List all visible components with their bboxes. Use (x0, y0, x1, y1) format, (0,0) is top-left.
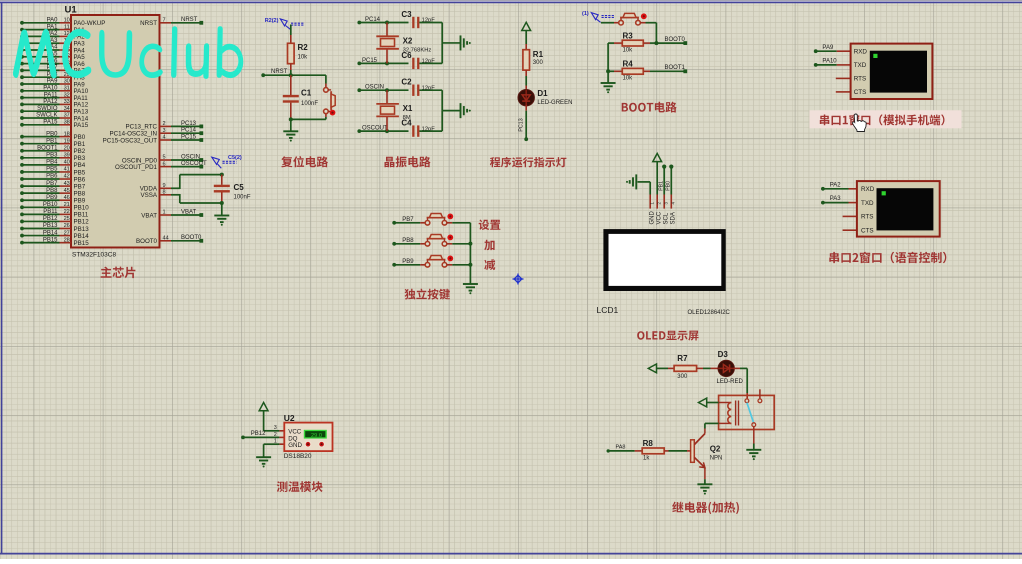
svg-text:10: 10 (64, 18, 70, 24)
OLED pin labels (649, 211, 676, 225)
svg-text:OSCIN: OSCIN (181, 154, 200, 160)
label 串口1窗口 highlight (810, 110, 962, 128)
svg-text:PB1: PB1 (659, 181, 665, 191)
svg-text:TXD: TXD (861, 200, 874, 207)
power arrow relay coil (699, 398, 707, 407)
resistor R8 (642, 439, 664, 462)
svg-text:PB10: PB10 (74, 205, 90, 212)
svg-text:27: 27 (64, 230, 70, 236)
svg-text:28: 28 (64, 237, 70, 243)
capacitor C5 (214, 175, 251, 203)
svg-text:RTS: RTS (861, 214, 873, 221)
wire arrow to R7 (657, 367, 674, 369)
button PB8 (425, 235, 453, 247)
node NRST junction (264, 73, 326, 77)
svg-text:PB11: PB11 (43, 209, 58, 215)
svg-text:PB15: PB15 (74, 240, 90, 247)
U1 left pin 17 PA7 (20, 65, 85, 75)
svg-text:45: 45 (64, 188, 70, 194)
svg-text:PB9: PB9 (74, 198, 86, 205)
U1 left pin 46 PB9 (20, 195, 86, 205)
U1 right pin 5 OSCIN_PD0 (122, 154, 203, 164)
svg-text:RXD: RXD (854, 49, 868, 56)
label 加 (484, 240, 494, 251)
resistor R4 (608, 60, 683, 82)
terminal PA10 (814, 59, 837, 67)
wire PB7 to button (396, 222, 426, 224)
U1 left pin 16 PA6 (20, 58, 85, 68)
wire C5 to ground (221, 203, 223, 216)
svg-text:Q2: Q2 (710, 444, 721, 453)
U1 right pin 8 VSSA (140, 190, 171, 200)
svg-text:37: 37 (64, 113, 70, 119)
terminal NRST (261, 69, 287, 77)
ground BOOT (601, 82, 616, 84)
svg-text:1k: 1k (643, 456, 650, 462)
svg-text:PA12: PA12 (43, 99, 58, 105)
capacitor C4 (401, 119, 435, 137)
label OLED显示屏 (637, 331, 698, 341)
diode D1 LED-GREEN (518, 89, 572, 106)
terminal PB9 (392, 259, 414, 267)
label 串口1窗口（模拟手机端） (820, 114, 945, 125)
U1 left pin 40 PB4 (20, 160, 86, 170)
U1 right pin 6 OSCOUT_PD1 (115, 161, 207, 171)
svg-text:7: 7 (163, 18, 166, 24)
node C5 bottom (220, 201, 224, 205)
svg-text:DS18B20: DS18B20 (284, 453, 312, 460)
relay pole contact (745, 399, 749, 403)
node X junction top (385, 88, 389, 92)
svg-text:X2: X2 (403, 37, 413, 46)
svg-text:3: 3 (274, 425, 277, 431)
U1 left pin 42 PB6 (20, 174, 86, 184)
svg-text:26: 26 (64, 223, 70, 229)
svg-text:SWDIO: SWDIO (37, 106, 58, 112)
terminal PC15 (357, 58, 377, 66)
U1 left pin 21 PB10 (20, 202, 89, 212)
svg-text:BOOT1: BOOT1 (665, 65, 686, 71)
svg-text:300: 300 (677, 374, 688, 380)
wire PA3 to TXD2 (824, 202, 857, 204)
label 串口2窗口（语音控制） (829, 252, 946, 263)
svg-text:C3: C3 (401, 10, 412, 19)
wire D1 down PC13 (518, 105, 526, 138)
svg-text:PB14: PB14 (43, 230, 58, 236)
svg-text:U2: U2 (284, 413, 295, 423)
svg-text:STM32F103C8: STM32F103C8 (72, 252, 116, 259)
node C1 bottom junction (289, 117, 293, 121)
capacitor C6 (401, 51, 435, 69)
U1 right pin 3 PC14-OSC32_IN (110, 128, 204, 138)
svg-text:R1: R1 (533, 50, 544, 59)
terminal PA8 (607, 445, 626, 453)
relay NO contact (758, 389, 762, 402)
wire R7 to D3 (697, 367, 719, 369)
svg-text:PB9: PB9 (46, 195, 58, 201)
U1 left pin 41 PB5 (20, 167, 86, 177)
wire PA8 to R8 (610, 450, 643, 452)
svg-text:5: 5 (163, 155, 166, 161)
svg-text:R2(2): R2(2) (265, 18, 279, 24)
origin marker R2(2) (265, 18, 305, 29)
wire button to node (640, 23, 656, 43)
svg-text:NRST: NRST (181, 17, 198, 23)
svg-text:PB6: PB6 (46, 174, 58, 180)
wire to ground X1 (442, 110, 460, 112)
svg-text:8: 8 (163, 190, 166, 196)
svg-text:39: 39 (64, 153, 70, 159)
svg-text:PC14: PC14 (181, 128, 197, 134)
svg-text:PB10: PB10 (43, 202, 58, 208)
wire PA9 to RXD (817, 50, 851, 52)
svg-text:11: 11 (64, 24, 70, 30)
svg-text:BOOT0: BOOT0 (181, 235, 202, 241)
wire coil to Q2 collector (705, 423, 719, 433)
U1 right pin 4 PC15-OSC32_OUT (103, 134, 204, 144)
U1 left pin 33 PA12 (20, 99, 89, 109)
svg-text:PA2: PA2 (830, 182, 842, 188)
svg-text:PB12: PB12 (43, 216, 58, 222)
svg-text:D3: D3 (718, 350, 729, 359)
svg-text:NPN: NPN (710, 456, 723, 462)
svg-text:PB4: PB4 (46, 160, 58, 166)
U1 right pin 1 VBAT (141, 209, 203, 219)
ground U2 (256, 456, 271, 458)
U1 left pin 25 PB12 (20, 216, 89, 226)
svg-text:22: 22 (64, 209, 70, 215)
transistor Q2 (691, 434, 723, 468)
power arrow U2 (259, 403, 268, 411)
wire C6 right (419, 43, 442, 63)
svg-text:CTS: CTS (854, 89, 867, 96)
resistor R7 (674, 354, 697, 380)
wire R8 to Q2 base (664, 450, 690, 452)
svg-text:GND: GND (288, 442, 302, 449)
svg-text:PB13: PB13 (43, 223, 58, 229)
svg-text:PB3: PB3 (46, 153, 58, 159)
svg-text:PB0: PB0 (46, 131, 58, 137)
power arrow D1 (522, 22, 531, 30)
svg-text:44: 44 (163, 236, 169, 242)
svg-text:NRST: NRST (140, 20, 157, 27)
svg-text:38: 38 (64, 120, 70, 126)
power arrow OLED VCC (653, 153, 662, 161)
wire PA10 to TXD (817, 64, 851, 66)
svg-text:21: 21 (64, 202, 70, 208)
ground X1 (460, 103, 462, 118)
U1 left pin 19 PB1 (20, 138, 86, 148)
svg-text:PA0: PA0 (47, 18, 59, 24)
node key bus 2 (468, 263, 472, 267)
svg-text:PC13: PC13 (181, 121, 197, 127)
label 设置 (479, 220, 501, 231)
ground keys (463, 283, 478, 285)
U1 left pin 29 PA8 (20, 72, 85, 82)
svg-text:PB15: PB15 (43, 237, 58, 243)
svg-text:2: 2 (163, 121, 166, 127)
svg-text:VSSA: VSSA (140, 192, 157, 199)
ground X2 (460, 35, 462, 50)
ground C5 (214, 215, 229, 217)
terminal BOOT0 square (683, 41, 687, 45)
wire bottom to button (291, 118, 326, 120)
resistor R1 (523, 50, 544, 70)
wire GND U2 (264, 444, 285, 457)
terminal PA2 (821, 182, 841, 190)
U1 left pin 18 PB0 (20, 131, 86, 141)
svg-text:C2: C2 (401, 78, 412, 87)
terminal PB7 (392, 217, 414, 225)
label 继电器(加热) (672, 502, 739, 515)
svg-text:BOOT0: BOOT0 (136, 238, 158, 245)
wire power to R1 (525, 31, 527, 50)
svg-text:PC13: PC13 (518, 118, 524, 131)
U1 left pin 14 PA4 (20, 45, 85, 55)
ground relay (746, 449, 761, 451)
wire OSCOUT row (360, 130, 409, 132)
wire R2 top (290, 25, 292, 44)
terminal PA9 (814, 45, 834, 53)
button PB9 (425, 256, 453, 268)
U1 left pin 31 PA10 (20, 86, 89, 96)
wire arrow to coil (707, 402, 719, 404)
label 主芯片 (101, 267, 136, 279)
svg-text:OSCOUT_PD1: OSCOUT_PD1 (115, 164, 158, 171)
wire VCC OLED (656, 162, 658, 195)
wire SDA (666, 168, 672, 195)
U1 left pin 10 PA0 (20, 18, 105, 28)
svg-text:C5: C5 (234, 183, 245, 192)
wire BOOT0 net (656, 37, 685, 43)
wire C2 right (419, 90, 442, 110)
svg-text:6: 6 (163, 161, 166, 167)
U1 right pin 7 NRST (140, 17, 203, 27)
svg-text:PC15-OSC32_OUT: PC15-OSC32_OUT (103, 137, 158, 144)
svg-text:BOOT0: BOOT0 (665, 37, 686, 43)
serial terminal 1 RTS stub (836, 77, 851, 79)
U1 left pin 30 PA9 (20, 79, 85, 89)
label 减 (484, 259, 495, 270)
origin marker (1) (582, 11, 615, 22)
origin marker C5(2) (212, 155, 242, 168)
resistor R3 (608, 32, 656, 54)
svg-text:32: 32 (64, 92, 70, 98)
svg-text:SDA: SDA (671, 212, 677, 224)
svg-text:R3: R3 (623, 32, 634, 41)
relay switch blade (747, 403, 754, 423)
label 程序运行指示灯 (490, 157, 567, 168)
wire PC14 row (360, 22, 409, 24)
boot button (619, 13, 647, 25)
U1 right pin 9 VDDA (140, 183, 171, 193)
wire PB9 to button (396, 264, 426, 266)
svg-text:R4: R4 (623, 60, 634, 69)
svg-text:TXD: TXD (854, 62, 867, 69)
wire C4 right (419, 111, 442, 131)
svg-text:1: 1 (163, 210, 166, 216)
serial terminal 2 CTS stub (843, 229, 857, 231)
svg-text:PA10: PA10 (822, 59, 837, 65)
wire PC15 row (360, 62, 409, 64)
label 测温模块 (277, 481, 323, 492)
terminal OSCOUT (357, 126, 388, 134)
U2 DS18B20 body (284, 413, 333, 451)
terminal PA3 (821, 196, 841, 204)
svg-text:PA9: PA9 (47, 79, 59, 85)
svg-text:PA10: PA10 (43, 86, 58, 92)
svg-text:32.768KHz: 32.768KHz (403, 47, 432, 53)
svg-text:PA11: PA11 (44, 92, 58, 98)
svg-text:VCC: VCC (656, 211, 662, 224)
watermark MCUclub (13, 14, 243, 79)
virtual terminal 2 (857, 181, 940, 237)
node X junction top (385, 21, 389, 25)
svg-text:PB1: PB1 (74, 141, 86, 148)
ground Q2 (697, 483, 712, 485)
svg-text:4: 4 (163, 135, 166, 141)
U1 left pin 45 PB8 (20, 188, 86, 198)
wire power to VCC U2 (264, 411, 285, 431)
svg-text:PA3: PA3 (830, 196, 842, 202)
U1 left pin 34 SWDIO (20, 106, 89, 116)
wire button PB8 to bus (447, 243, 471, 245)
U2 temperature display (304, 430, 327, 439)
label BOOT电路 (622, 102, 677, 113)
U1 STM32F103C8 chip body (71, 15, 160, 248)
OLED pin stubs (650, 195, 676, 209)
ground OLED sideways (635, 174, 637, 189)
capacitor C1 (283, 75, 319, 119)
svg-text:40: 40 (64, 160, 70, 166)
svg-text:100nF: 100nF (301, 101, 318, 107)
ground reset (283, 130, 298, 132)
terminal BOOT1 square (683, 69, 687, 73)
svg-text:1: 1 (274, 439, 277, 445)
svg-text:43: 43 (64, 181, 70, 187)
node X junction bottom (385, 61, 389, 65)
svg-text:SCL: SCL (663, 212, 669, 224)
wire PB8 to button (396, 243, 426, 245)
svg-text:25: 25 (64, 216, 70, 222)
svg-text:10k: 10k (623, 76, 634, 82)
svg-text:PA15: PA15 (43, 120, 58, 126)
svg-text:RTS: RTS (854, 76, 866, 83)
U1 left pin 15 PA5 (20, 52, 85, 62)
svg-text:PB14: PB14 (74, 233, 90, 240)
terminal OSCIN (357, 85, 384, 93)
U1 left pin 38 PA15 (20, 120, 89, 130)
wire D3 to relay (734, 368, 748, 398)
svg-text:PC15: PC15 (181, 134, 197, 140)
svg-text:C1: C1 (301, 89, 312, 98)
svg-text:100nF: 100nF (234, 195, 251, 201)
terminal PB1 dot (662, 165, 666, 169)
svg-text:R7: R7 (677, 354, 688, 363)
serial terminal 2 RTS stub (843, 215, 857, 217)
wire R3 left vertical (607, 43, 609, 83)
svg-text:20: 20 (64, 145, 70, 151)
wire VDDA to C5 (171, 175, 222, 189)
svg-text:PB12: PB12 (251, 431, 266, 437)
svg-text:CTS: CTS (861, 228, 874, 235)
svg-text:(1): (1) (582, 11, 589, 17)
U1 left pin 11 PA1 (20, 24, 85, 34)
svg-text:29.0: 29.0 (311, 433, 322, 439)
node X junction bottom (385, 129, 389, 133)
svg-text:PA1: PA1 (47, 24, 59, 30)
crystal X2 (376, 23, 431, 64)
U1 left pin 27 PB14 (20, 230, 89, 240)
label 复位电路 (281, 156, 328, 167)
svg-text:2: 2 (274, 432, 277, 438)
node R4 left junction (606, 69, 610, 73)
crystal X1 (376, 90, 413, 131)
U2 adjust buttons (305, 441, 325, 448)
terminal PB0 dot (669, 165, 673, 169)
terminal PB12 (241, 431, 266, 439)
U1 left pin 13 PA3 (20, 38, 85, 48)
svg-text:PB12: PB12 (74, 219, 90, 226)
svg-text:X1: X1 (403, 104, 413, 113)
wire GND OLED (638, 182, 651, 195)
terminal PB8 (392, 238, 414, 246)
svg-text:U1: U1 (65, 5, 78, 16)
svg-text:31: 31 (64, 86, 70, 92)
svg-text:PB13: PB13 (74, 226, 90, 233)
svg-text:PB7: PB7 (46, 181, 58, 187)
svg-text:RXD: RXD (861, 186, 875, 193)
wire to boot button (601, 22, 619, 24)
svg-text:PB11: PB11 (74, 212, 89, 219)
mouse cursor hand (853, 114, 867, 132)
U1 left pin 26 PB13 (20, 223, 89, 233)
svg-text:19: 19 (64, 138, 70, 144)
svg-text:PB3: PB3 (74, 155, 86, 162)
wire SCL (659, 168, 665, 195)
U1 left pin 39 PB3 (20, 153, 86, 163)
svg-text:LED-RED: LED-RED (717, 379, 744, 385)
U1 left pin 12 PA2 (20, 31, 85, 41)
svg-text:PB5: PB5 (46, 167, 58, 173)
svg-text:PB2: PB2 (74, 148, 86, 155)
virtual terminal 1 (851, 44, 933, 99)
diode D3 LED-RED (717, 350, 744, 385)
wire VSSA to C5 (171, 194, 222, 203)
svg-text:GND: GND (649, 211, 655, 225)
reset button (324, 75, 336, 119)
node key bus 1 (468, 242, 472, 246)
svg-text:R2: R2 (298, 43, 309, 52)
U1 left pin 22 PB11 (20, 209, 89, 219)
power arrow R7 (648, 364, 656, 373)
node BOOT0 junction (654, 41, 658, 45)
resistor R2 (288, 43, 309, 64)
svg-text:C5(2): C5(2) (228, 155, 242, 161)
button PB7 (425, 214, 453, 226)
svg-text:10k: 10k (298, 55, 309, 61)
svg-text:PB1: PB1 (46, 138, 58, 144)
U1 right pin 44 BOOT0 (136, 235, 203, 245)
svg-text:42: 42 (64, 174, 70, 180)
terminal PC14 (357, 17, 380, 25)
svg-text:LED-GREEN: LED-GREEN (537, 100, 572, 106)
svg-text:33: 33 (64, 99, 70, 105)
relay RL1 body (719, 395, 775, 429)
svg-text:SWCLK: SWCLK (36, 113, 57, 119)
U2 pin numbers (274, 425, 277, 444)
svg-text:PB0: PB0 (666, 181, 672, 191)
